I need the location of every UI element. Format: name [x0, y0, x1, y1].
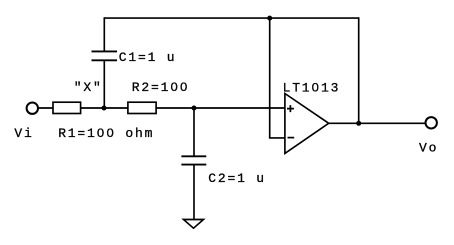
svg-text:R2=100: R2=100	[132, 80, 190, 95]
resistor R1	[53, 102, 81, 113]
wire main input line Vi to op-amp plus input	[39, 107, 285, 109]
terminal Vo	[426, 117, 437, 128]
ground	[184, 220, 204, 229]
resistor R2	[128, 102, 156, 113]
node feedback rail junction dot	[267, 16, 272, 21]
capacitor C2	[181, 156, 206, 164]
node C2 junction dot	[192, 106, 197, 111]
wire C1 top lead drop	[103, 17, 105, 51]
op-amp U1 LT1013	[285, 94, 329, 154]
wire minus-input feedback drop	[269, 18, 271, 138]
node output junction dot	[356, 121, 361, 126]
wire output feedback drop	[358, 17, 360, 123]
terminal Vi	[27, 103, 38, 114]
svg-text:Vo: Vo	[419, 140, 438, 155]
wire C2 bottom lead to ground	[193, 165, 195, 220]
wire top feedback rail	[104, 17, 358, 19]
wire minus-input horizontal	[269, 137, 285, 139]
svg-text:C1=1 u: C1=1 u	[119, 50, 177, 65]
svg-text:R1=100 ohm: R1=100 ohm	[58, 126, 154, 141]
wire C2 lead from junction	[193, 108, 195, 156]
wire op-amp output to Vo	[329, 122, 425, 124]
svg-text:Vi: Vi	[14, 126, 33, 141]
wire C1 bottom lead to node X	[103, 60, 105, 108]
node X junction dot	[102, 106, 107, 111]
capacitor C1	[92, 51, 118, 60]
svg-text:"X": "X"	[74, 80, 103, 95]
svg-text:LT1013: LT1013	[283, 81, 341, 96]
svg-text:C2=1 u: C2=1 u	[208, 171, 266, 186]
